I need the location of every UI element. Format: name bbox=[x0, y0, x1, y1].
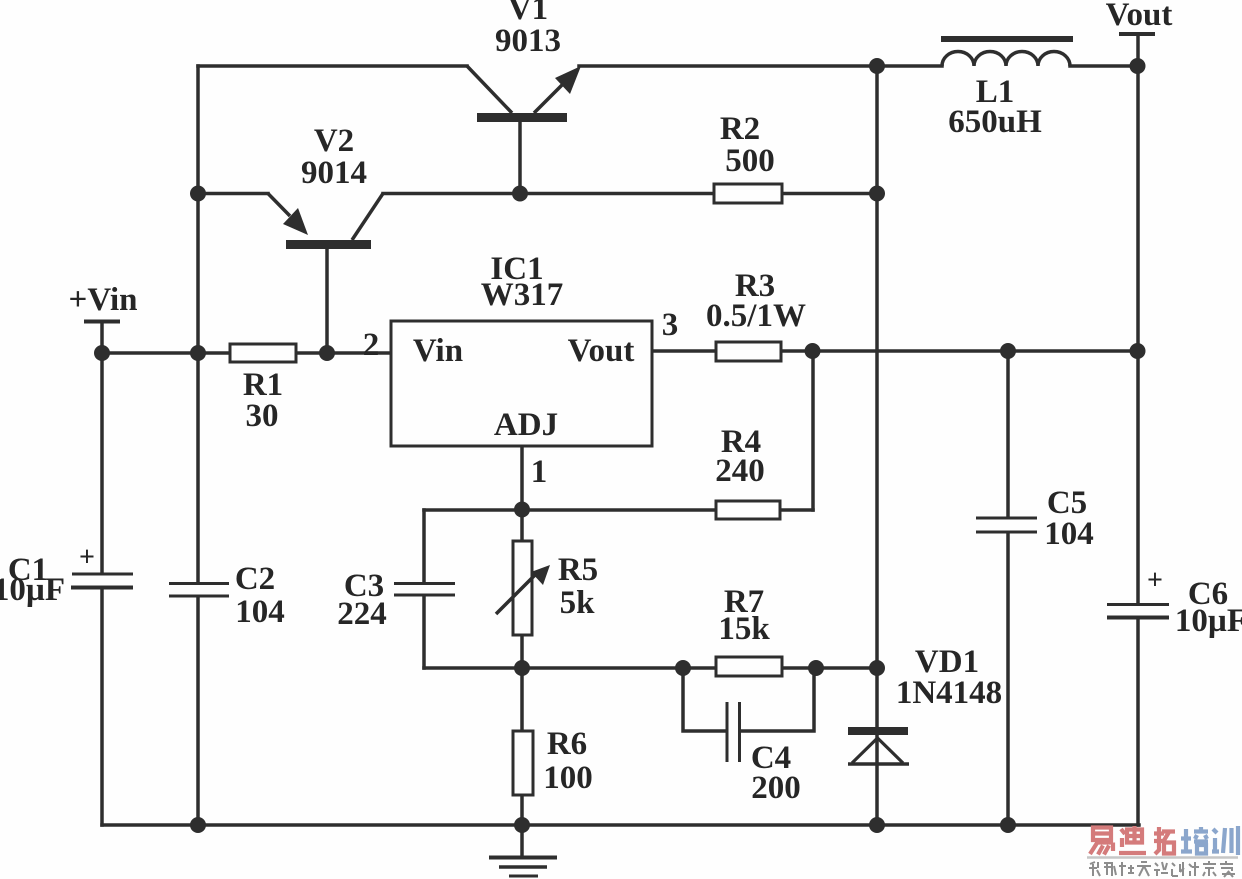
wire V2 row left segment bbox=[198, 192, 268, 196]
transistor V1 base bar bbox=[477, 113, 567, 122]
svg-text:5k: 5k bbox=[560, 585, 596, 621]
node junction R2 right x877 bbox=[869, 186, 885, 202]
transistor V2 emitter line with arrow (points into base) bbox=[268, 194, 308, 236]
svg-text:240: 240 bbox=[715, 453, 765, 489]
wire R2 right to node bbox=[782, 192, 877, 196]
svg-text:V2: V2 bbox=[314, 123, 354, 159]
node junction R7 left / C4 bbox=[675, 660, 691, 676]
wire C5 top lead bbox=[1006, 351, 1010, 517]
potentiometer R5 wiper arrow bbox=[496, 565, 550, 614]
ground symbol bbox=[489, 858, 557, 877]
svg-text:224: 224 bbox=[337, 596, 387, 632]
capacitor C5 plates bbox=[976, 518, 1037, 532]
diode VD1 triangle bbox=[848, 738, 909, 764]
svg-text:W317: W317 bbox=[481, 277, 564, 313]
svg-text:3: 3 bbox=[662, 307, 679, 343]
node junction C5 bottom rail bbox=[1000, 817, 1016, 833]
wire C1 top lead bbox=[100, 353, 104, 573]
wire C3 top lead bbox=[422, 510, 426, 582]
wire R4 right vertical to Vout rail bbox=[811, 351, 815, 510]
transistor V2 collector line bbox=[352, 194, 383, 241]
wire C6 bottom lead bbox=[1136, 618, 1140, 825]
watermark logo big char 2 (red) bbox=[1119, 826, 1146, 853]
node junction Vout top bbox=[1130, 58, 1146, 74]
wire C1 bottom lead bbox=[100, 588, 104, 825]
svg-text:2: 2 bbox=[363, 327, 380, 363]
wire top rail V1 emitter to L1 bbox=[579, 64, 942, 68]
node junction C5 top bbox=[1000, 343, 1016, 359]
wire C4 right leg bbox=[740, 668, 814, 731]
wire bottom ground rail bbox=[102, 823, 1139, 827]
node junction Vin rail at C1 bbox=[94, 345, 110, 361]
watermark logo big char 3 (red) bbox=[1154, 827, 1175, 854]
svg-text:15k: 15k bbox=[718, 611, 770, 647]
watermark tagline char row (gray) bbox=[1089, 861, 1235, 877]
node junction V1 base on V2 row bbox=[512, 186, 528, 202]
node junction Vout rail / C6 bbox=[1130, 343, 1146, 359]
wire left vertical x198 top rail down bbox=[196, 66, 200, 353]
wire C3 bottom lead bbox=[422, 596, 426, 668]
resistor R6 bbox=[513, 731, 533, 795]
transistor V1 collector line bbox=[467, 66, 512, 113]
wire V2 base lead bbox=[325, 248, 329, 353]
node +Vin terminal bar bbox=[84, 320, 120, 324]
node junction R7 right / C4 bbox=[808, 660, 824, 676]
svg-text:0.5/1W: 0.5/1W bbox=[706, 298, 806, 334]
watermark logo big char 1 (red) bbox=[1090, 828, 1113, 855]
node junction C2 bottom rail bbox=[190, 817, 206, 833]
capacitor C1 plates (electrolytic, + at top) bbox=[71, 574, 133, 588]
svg-text:+: + bbox=[1147, 565, 1163, 596]
svg-text:200: 200 bbox=[751, 770, 801, 806]
transistor V2 base bar bbox=[286, 240, 371, 249]
capacitor C6 plates (electrolytic, + at top) bbox=[1107, 605, 1169, 618]
wire R5 bottom row to R7 bbox=[424, 666, 716, 670]
wire R3 right to Vout rail bbox=[781, 349, 1138, 353]
inductor L1 core bar bbox=[941, 36, 1073, 42]
svg-text:C2: C2 bbox=[235, 561, 275, 597]
svg-text:1N4148: 1N4148 bbox=[896, 675, 1002, 711]
wire C2 bottom lead bbox=[196, 597, 200, 825]
node junction top rail x877 bbox=[869, 58, 885, 74]
wire input rail to R1 bbox=[102, 351, 230, 355]
svg-text:104: 104 bbox=[1044, 516, 1094, 552]
svg-text:1: 1 bbox=[531, 454, 548, 490]
resistor R3 bbox=[716, 342, 781, 361]
potentiometer R5 body bbox=[513, 541, 532, 635]
diode VD1 cathode bar bbox=[848, 727, 908, 735]
inductor L1 winding bbox=[942, 51, 1070, 66]
watermark logo big char 5 (blue) bbox=[1212, 826, 1238, 855]
svg-text:R2: R2 bbox=[720, 111, 760, 147]
node junction ADJ pin 1 bbox=[514, 502, 530, 518]
resistor R2 bbox=[714, 184, 782, 203]
wire top rail left of V1 bbox=[198, 64, 467, 68]
watermark logo big char 4 (blue) bbox=[1181, 827, 1208, 854]
wire IC pin 3 to R3 bbox=[652, 349, 716, 353]
wire L1 to Vout node bbox=[1070, 64, 1137, 68]
node junction VD1 bottom rail bbox=[869, 817, 885, 833]
svg-text:Vout: Vout bbox=[1106, 0, 1173, 33]
svg-text:R5: R5 bbox=[558, 552, 598, 588]
node Vout terminal bar bbox=[1119, 32, 1155, 36]
svg-text:Vout: Vout bbox=[568, 333, 635, 369]
node junction V2 base on rail bbox=[319, 345, 335, 361]
wire C2 top lead bbox=[196, 353, 200, 582]
wire R6 bottom lead to ground bbox=[520, 795, 524, 855]
capacitor C4 plates (vertical) bbox=[727, 702, 740, 762]
svg-text:30: 30 bbox=[246, 398, 279, 434]
svg-text:9013: 9013 bbox=[495, 23, 561, 59]
wire Vin terminal stub bbox=[100, 323, 104, 353]
node junction R5 bottom bbox=[514, 660, 530, 676]
wire R1 to IC pin 2 bbox=[296, 351, 391, 355]
svg-text:10µF: 10µF bbox=[1175, 603, 1242, 639]
node junction x198 input rail bbox=[190, 345, 206, 361]
wire C4 left leg bbox=[683, 668, 725, 731]
resistor R4 bbox=[716, 501, 780, 519]
wire R5 bottom lead bbox=[520, 635, 524, 731]
wire R7 right to VD1 node bbox=[782, 666, 877, 670]
svg-text:+Vin: +Vin bbox=[69, 282, 138, 318]
wire x877 vertical V1 emitter node down through VD1 to bottom rail bbox=[875, 66, 879, 825]
svg-text:+: + bbox=[79, 542, 95, 573]
node junction R6 bottom ground rail bbox=[514, 817, 530, 833]
node junction x198 V2 row bbox=[190, 186, 206, 202]
wire V2 collector to R2 left bbox=[383, 192, 714, 196]
svg-text:R6: R6 bbox=[547, 726, 587, 762]
svg-text:ADJ: ADJ bbox=[494, 407, 558, 443]
watermark divider line bbox=[1087, 856, 1238, 859]
transistor V1 emitter line with arrow bbox=[534, 66, 581, 113]
IC U1 W317 box bbox=[391, 321, 652, 446]
capacitor C2 plates bbox=[169, 584, 229, 597]
resistor R7 bbox=[716, 657, 782, 676]
wire V1 base lead bbox=[518, 122, 522, 194]
wire Vout terminal stub down to C6 bbox=[1136, 34, 1140, 603]
wire R4 right lead bbox=[780, 508, 813, 512]
wire IC ADJ pin lead bbox=[520, 446, 524, 541]
svg-text:Vin: Vin bbox=[413, 333, 463, 369]
svg-text:10µF: 10µF bbox=[0, 572, 65, 608]
capacitor C3 plates bbox=[394, 584, 455, 596]
wire ADJ row to R4 bbox=[424, 508, 716, 512]
svg-text:104: 104 bbox=[235, 594, 285, 630]
svg-text:100: 100 bbox=[543, 760, 593, 796]
node junction R3/R4 bbox=[805, 343, 821, 359]
svg-text:9014: 9014 bbox=[301, 155, 367, 191]
resistor R1 bbox=[230, 344, 296, 362]
node junction VD1 top x877 bbox=[869, 660, 885, 676]
svg-text:500: 500 bbox=[725, 143, 775, 179]
wire C5 bottom lead bbox=[1006, 533, 1010, 825]
svg-text:650uH: 650uH bbox=[948, 104, 1042, 140]
